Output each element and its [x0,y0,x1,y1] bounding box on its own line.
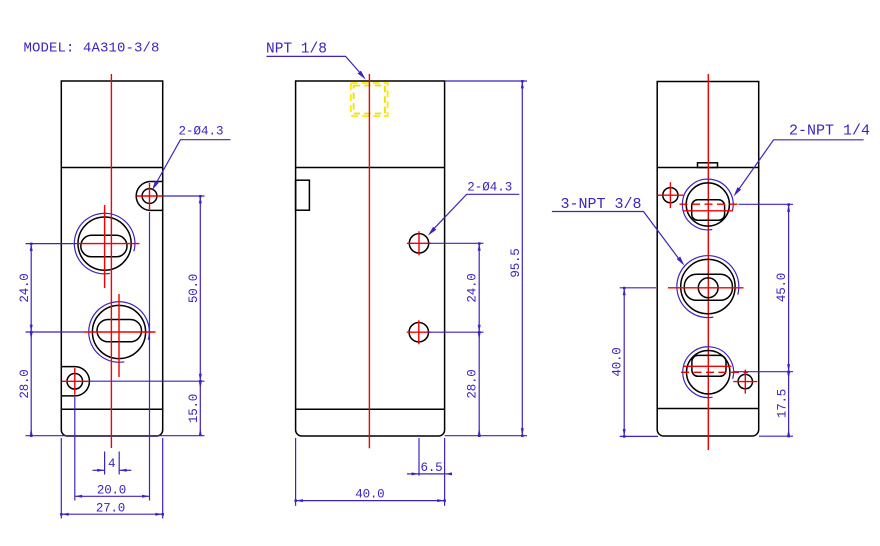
svg-text:24.0: 24.0 [18,273,32,302]
svg-text:17.5: 17.5 [776,389,790,418]
port B slot [684,274,732,300]
port P1 thread arc [74,213,135,274]
dimension 28.0 left [30,332,32,436]
top tab [698,163,718,168]
dimension 50.0 right [199,196,201,381]
port B inner circle [698,278,718,298]
svg-text:6.5: 6.5 [421,461,443,475]
port A outer circle [686,183,729,226]
shared bottom ext middle [445,435,527,437]
shared bottom extension line [26,435,205,437]
port B thread arc [677,256,739,318]
dimension 24.0 left [30,244,32,332]
small hole top-left right view [663,188,678,203]
extension line port2 center [26,331,85,333]
centerline right view [707,74,709,450]
centerline middle view [368,74,370,448]
main vertical centerline left view [110,74,112,448]
hole H2 middle view [409,323,428,342]
svg-text:20.0: 20.0 [97,484,126,498]
dimension 4 bottom [104,452,106,475]
boss of bottom-left mounting hole [61,367,89,396]
port P1 slot [81,235,127,256]
mounting hole top-right [142,189,157,204]
center cross top-right hole [137,183,163,209]
body outline middle view [296,81,445,436]
ext H1 [427,242,484,244]
port A thread arc [682,179,733,230]
svg-text:40.0: 40.0 [355,488,384,502]
svg-text:NPT 1/8: NPT 1/8 [266,41,327,57]
dimension 24.0 middle [478,243,480,332]
port A solid line [683,210,733,212]
dimension 15.0 right [199,381,201,436]
port C outer circle [687,351,730,394]
body outline right view [657,82,759,437]
ext bottom left right view [620,435,658,437]
svg-text:3-NPT 3/8: 3-NPT 3/8 [561,196,642,213]
dimension 28.0 middle [478,332,480,436]
svg-text:2-Ø4.3: 2-Ø4.3 [467,181,512,195]
ext port B left [620,287,656,289]
svg-text:2-NPT 1/4: 2-NPT 1/4 [789,122,870,139]
cross H2 [407,320,431,344]
divider right view [657,167,759,169]
ext port C [734,371,793,373]
port C slot [692,355,726,376]
left notch [296,180,310,210]
port A slot [692,200,725,220]
svg-text:45.0: 45.0 [775,273,789,302]
cross small hole top-left [658,182,684,208]
small hole bottom-right right view [738,374,752,388]
boss of top-right mounting hole [136,182,162,211]
port C solid line [684,365,732,367]
mounting hole bottom-left [67,374,83,390]
lower divider middle view [296,408,445,410]
port P1 centerlines [78,205,140,288]
svg-text:4: 4 [108,457,115,471]
cross H1 [407,231,431,255]
extension line top-right hole [163,195,205,197]
extension line port1 center [26,243,79,245]
svg-text:27.0: 27.0 [96,501,125,515]
dimension 95.5 [521,81,523,436]
ext port A [739,203,794,205]
cross small hole bottom-right [733,370,757,394]
dimension 40.0 middle [295,438,297,506]
body outline left view [61,81,162,436]
svg-text:50.0: 50.0 [187,274,201,303]
svg-text:28.0: 28.0 [18,369,32,398]
svg-text:MODEL: 4A310-3/8: MODEL: 4A310-3/8 [24,41,160,57]
yellow dashed port inner [354,86,385,114]
svg-text:40.0: 40.0 [611,347,625,376]
svg-text:28.0: 28.0 [466,369,480,398]
ext H2 [427,331,484,333]
port B outer circle [681,259,735,313]
bottom ext right view [759,435,793,437]
divider line middle view [296,167,445,169]
dimension 45.0 [788,204,790,371]
port B centerline [668,287,744,289]
top ext middle [445,80,527,82]
port C thread arc [683,347,734,398]
port P2 slot [97,320,142,342]
center cross bottom-left hole [62,368,89,395]
svg-text:95.5: 95.5 [509,248,523,277]
port P2 centerlines [84,294,156,377]
hole H1 middle view [409,234,428,253]
port A dashed centerline [680,203,739,205]
lower divider right view [657,408,759,410]
svg-text:2-Ø4.3: 2-Ø4.3 [179,125,224,139]
lower divider line [61,408,162,410]
svg-text:15.0: 15.0 [187,394,201,423]
port P2 thread arc [89,302,150,363]
dimension 27.0 bottom [60,438,62,519]
extension line bottom-left hole [89,380,205,382]
top section divider line [61,167,162,169]
svg-text:24.0: 24.0 [466,273,480,302]
port P1 outer circle [78,217,131,270]
dimension 20.0 bottom [74,397,76,501]
dimension 17.5 [788,372,790,437]
dimension 6.5 [418,438,420,476]
yellow dashed port outer [351,83,388,116]
port C dashed centerline [681,371,748,373]
dimension 40.0 right view [623,288,625,437]
port P2 outer circle [92,305,145,358]
